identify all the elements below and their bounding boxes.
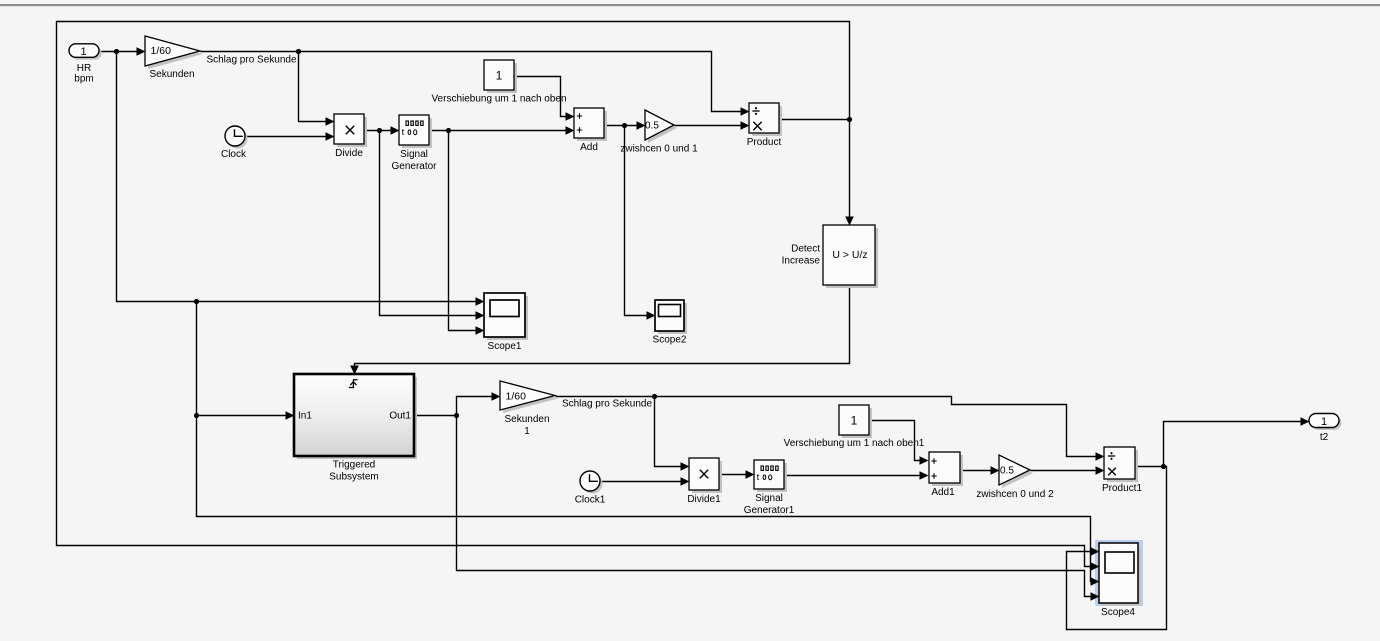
svg-text:t: t <box>402 127 405 138</box>
svg-text:Clock: Clock <box>221 149 247 160</box>
svg-text:Schlag pro Sekunde: Schlag pro Sekunde <box>562 399 653 410</box>
svg-text:Verschiebung um 1 nach oben1: Verschiebung um 1 nach oben1 <box>784 438 925 449</box>
svg-text:Signal: Signal <box>400 149 428 160</box>
svg-text:bpm: bpm <box>74 74 93 85</box>
svg-text:Add1: Add1 <box>931 487 955 498</box>
svg-text:Triggered: Triggered <box>333 460 375 471</box>
svg-text:Generator: Generator <box>391 161 437 172</box>
svg-text:HR: HR <box>77 63 91 74</box>
svg-text:1/60: 1/60 <box>151 45 172 57</box>
svg-text:Scope2: Scope2 <box>653 335 687 346</box>
svg-text:0.5: 0.5 <box>645 121 659 132</box>
svg-text:Schlag pro Sekunde: Schlag pro Sekunde <box>206 55 297 66</box>
svg-text:Add: Add <box>580 142 598 153</box>
svg-text:In1: In1 <box>298 411 312 422</box>
svg-text:Scope4: Scope4 <box>1101 607 1135 618</box>
svg-text:U > U/z: U > U/z <box>832 249 867 261</box>
svg-text:1: 1 <box>80 46 86 58</box>
svg-text:Generator1: Generator1 <box>744 505 795 516</box>
svg-text:t2: t2 <box>1320 432 1329 443</box>
svg-text:1: 1 <box>524 426 530 437</box>
svg-text:0.5: 0.5 <box>1000 466 1014 477</box>
svg-text:Clock1: Clock1 <box>575 495 606 506</box>
svg-text:Divide1: Divide1 <box>687 494 721 505</box>
svg-text:Product1: Product1 <box>1102 483 1142 494</box>
svg-text:Scope1: Scope1 <box>488 341 522 352</box>
svg-text:Subsystem: Subsystem <box>329 472 378 483</box>
svg-text:Product: Product <box>747 137 782 148</box>
svg-text:1: 1 <box>1321 416 1327 428</box>
svg-text:Sekunden: Sekunden <box>149 69 194 80</box>
svg-text:zwishcen 0 und 2: zwishcen 0 und 2 <box>976 489 1054 500</box>
svg-text:Detect: Detect <box>791 244 820 255</box>
svg-text:Out1: Out1 <box>389 411 411 422</box>
svg-text:1: 1 <box>851 413 858 427</box>
svg-text:1: 1 <box>496 69 503 83</box>
svg-text:zwishcen 0 und 1: zwishcen 0 und 1 <box>620 144 698 155</box>
svg-text:t: t <box>757 472 760 483</box>
svg-text:1/60: 1/60 <box>506 391 527 403</box>
svg-text:Sekunden: Sekunden <box>504 414 549 425</box>
svg-text:Verschiebung um 1 nach oben: Verschiebung um 1 nach oben <box>431 94 566 105</box>
svg-text:Signal: Signal <box>755 493 783 504</box>
svg-text:Divide: Divide <box>335 148 363 159</box>
svg-text:Increase: Increase <box>782 256 821 267</box>
